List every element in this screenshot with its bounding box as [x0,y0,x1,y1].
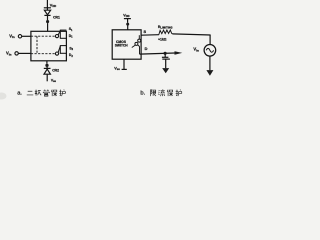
~1k ohm label [158,37,166,41]
CMOS SWITCH text [115,40,129,48]
VSS label (left circuit) [51,78,57,83]
ground arrow below source [209,56,211,70]
contact circle S [138,39,141,42]
svg-text:Vss: Vss [114,66,120,71]
diode CR2 [44,67,51,69]
han liu [158,89,165,96]
wire node to box top [47,23,49,31]
output arrowhead [175,51,183,55]
svg-text:Vin: Vin [193,47,199,53]
pole bar switch 2 [59,45,61,54]
R LIMITING label [158,25,173,30]
contact circle switch 2 [55,52,58,55]
wire D to output arrow [140,53,175,54]
han bao [51,90,57,97]
VDD rail tick (left circuit) [44,7,51,9]
wire second input to box [18,52,31,54]
second input terminal circle [15,52,18,55]
Vin label (right circuit) [193,47,199,53]
resistor R_LIMITING zigzag [159,30,173,35]
VDD label (left circuit) [50,3,56,8]
VSS pin (right circuit) [123,59,125,69]
node junction below box [45,64,48,67]
node junction above box [126,23,129,26]
wire D pin post [139,46,141,54]
pin stub D1 [60,37,66,39]
wire contact link [138,45,140,47]
capacitor from junction [164,53,166,57]
switch element 2 [55,45,66,55]
svg-text:VDD: VDD [50,3,56,8]
pin label S [144,29,147,34]
svg-text:CR1: CR1 [53,16,60,20]
contact circle D [135,42,138,45]
dashed internal wire to switch 1 [31,35,55,37]
VSS label (right circuit) [114,66,120,71]
han hu [59,90,65,97]
CR1 label [53,16,60,20]
svg-text:D: D [145,46,148,51]
wire CR2 to VSS [46,74,48,81]
svg-text:Vin: Vin [9,34,15,40]
wire box bottom to node [46,61,48,64]
wire S to resistor [141,34,159,37]
wire S pin post [138,35,140,39]
wire CR1 to node [47,15,49,20]
pin stub S2 [60,45,66,47]
svg-text:a.: a. [17,91,22,97]
dashed internal branch vertical [36,36,38,54]
svg-text:Vin: Vin [6,51,12,57]
AC source [204,45,216,57]
svg-text:D1: D1 [69,34,73,39]
han er [27,91,34,95]
wire from top edge to VDD rail [46,0,48,10]
Vin label (left) [9,34,15,40]
pin label D [145,46,148,51]
scan smudge bottom-left [0,93,7,100]
svg-text:SWITCH: SWITCH [115,44,129,48]
svg-text:CR2: CR2 [52,68,59,72]
pole bar switch 1 [59,30,61,39]
CR2 label [52,68,59,72]
switch element 1 [55,30,66,39]
junction dot on D wire [164,52,167,55]
dashed internal wire to switch 2 [31,53,55,55]
svg-text:VDD: VDD [123,13,129,18]
wire VDD to node [127,19,129,23]
pin stub S1 [60,29,66,31]
wire node to CR2 [46,67,48,69]
ground arrow below capacitor [162,68,169,73]
pin stub D2 [60,52,66,54]
svg-text:D2: D2 [69,53,73,58]
contact circle switch 1 [55,35,58,38]
VDD rail tick (right circuit) [124,18,131,20]
svg-text:b.: b. [140,91,145,97]
switch arm 2 [58,46,60,52]
svg-text:≈1kΩ: ≈1kΩ [158,37,166,41]
node junction above box [46,20,49,23]
wire resistor to corner [172,34,210,35]
Vin terminal circle [18,35,21,38]
svg-text:S1: S1 [69,27,73,32]
caption b Chinese: xian liu bao hu (hand drawn) [150,89,181,96]
han bao [167,90,173,97]
CMOS SWITCH box [112,30,141,59]
caption a Chinese: er ji guan bao hu (hand drawn) [27,90,66,97]
han ji [35,90,41,96]
svg-text:S: S [144,29,147,34]
diode CR1 [44,10,50,15]
wire node to box top [127,26,129,30]
svg-text:Vss: Vss [51,78,57,83]
svg-text:S2: S2 [69,47,73,52]
han xian [150,90,156,97]
wire corner down to source [209,35,211,45]
wire Vin to box [22,35,31,37]
switch arm [132,45,136,47]
han guan [43,90,49,96]
VDD label (right circuit) [123,13,129,18]
switch arm 1 [58,31,60,35]
IC package box [31,31,67,61]
svg-text:RLIMITING: RLIMITING [158,25,173,30]
han hu [176,90,182,97]
second input label [6,51,12,57]
